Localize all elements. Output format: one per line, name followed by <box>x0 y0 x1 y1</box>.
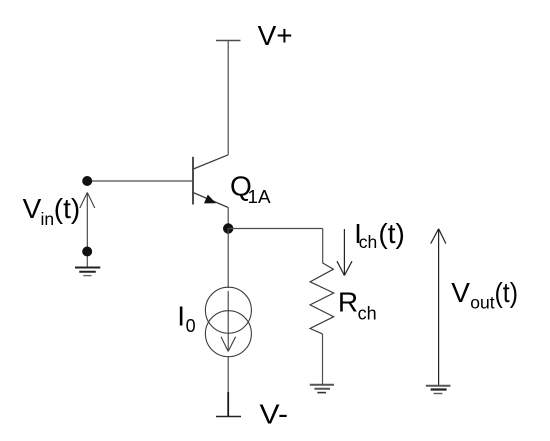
svg-text:(t): (t) <box>495 277 519 308</box>
wire node to R_ch <box>228 228 323 230</box>
svg-text:1A: 1A <box>248 187 271 207</box>
current source I0 <box>205 287 251 357</box>
V_out measurement arrow <box>431 229 446 386</box>
V_in source arrow <box>80 193 95 248</box>
svg-text:0: 0 <box>186 315 196 336</box>
svg-text:R: R <box>338 287 358 318</box>
svg-text:out: out <box>470 292 494 312</box>
wire node down to current source <box>227 229 229 289</box>
svg-text:in: in <box>41 209 55 229</box>
svg-text:V: V <box>23 193 42 224</box>
transistor Q1A <box>193 155 228 208</box>
svg-text:V+: V+ <box>258 20 293 51</box>
svg-text:ch: ch <box>358 303 377 323</box>
svg-text:ch: ch <box>359 232 377 252</box>
wire emitter vertical <box>227 208 229 229</box>
svg-text:(t): (t) <box>54 193 80 224</box>
power V- terminal bar <box>216 416 241 418</box>
svg-text:I: I <box>177 301 185 332</box>
wire base <box>87 180 193 182</box>
svg-text:(t): (t) <box>378 218 404 249</box>
node base input dot <box>82 176 92 186</box>
wire current source to V- <box>227 357 229 417</box>
resistor R_ch zigzag <box>310 263 334 334</box>
power V+ terminal bar <box>216 40 241 42</box>
wire collector to V+ <box>227 41 229 155</box>
ground (V_out) <box>426 386 451 394</box>
svg-text:V: V <box>451 277 470 308</box>
node V_in lower dot <box>82 247 92 257</box>
wire R_ch to ground <box>322 334 324 385</box>
svg-text:V-: V- <box>260 399 289 430</box>
ground (R_ch) <box>310 385 334 393</box>
node emitter junction dot <box>223 223 233 233</box>
wire dot to ground <box>86 257 88 268</box>
current arrow I_ch <box>337 229 352 276</box>
power V- terminal stem (black segment) <box>227 392 229 417</box>
ground (V_in) <box>75 268 100 276</box>
wire R_ch top drop <box>322 229 324 264</box>
